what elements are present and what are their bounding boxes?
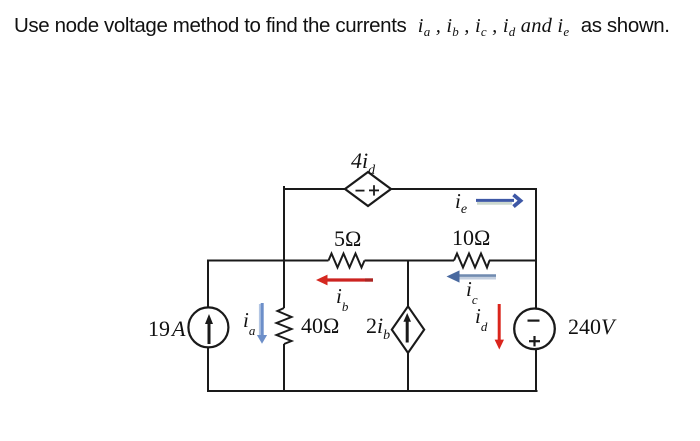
wire right vertical lower	[535, 349, 537, 392]
svg-text:19A: 19A	[148, 316, 186, 341]
wire 2ib branch upper	[407, 261, 409, 307]
title	[14, 16, 670, 37]
wire left vertical upper	[207, 260, 209, 307]
svg-text:5Ω: 5Ω	[334, 226, 361, 251]
minus sign inside 240V	[528, 320, 540, 322]
dependent current source 2ib diamond	[392, 306, 424, 353]
plus sign inside 240V	[529, 336, 540, 346]
wire 2ib branch lower	[407, 352, 409, 392]
current source 19A circle	[188, 307, 228, 347]
resistor 10ohm zigzag	[454, 254, 490, 268]
wire middle left segment	[207, 260, 329, 262]
current arrow ie (blue right)	[476, 195, 521, 207]
svg-text:2ib: 2ib	[366, 313, 390, 343]
svg-text:40Ω: 40Ω	[301, 313, 339, 338]
svg-text:ie: ie	[455, 189, 467, 217]
svg-text:10Ω: 10Ω	[452, 225, 490, 250]
wire below 40ohm	[283, 344, 285, 392]
voltage source 240V circle	[514, 309, 555, 350]
svg-text:ib: ib	[336, 284, 349, 314]
wire top-right segment	[391, 188, 536, 190]
resistor 40ohm zigzag	[277, 308, 292, 344]
svg-text:240V: 240V	[568, 314, 617, 339]
plus sign inside 4id diamond	[369, 185, 379, 195]
wire bottom	[207, 390, 538, 392]
current arrow ic (blue left)	[447, 270, 497, 282]
minus sign inside 4id diamond	[356, 190, 365, 192]
2ib source arrow	[403, 313, 411, 343]
wire middle right segment	[489, 260, 536, 262]
19A source arrow	[205, 314, 213, 344]
svg-text:id: id	[475, 304, 488, 334]
current arrow id (red down)	[495, 304, 504, 350]
wire middle center segment	[365, 260, 455, 262]
resistor 5ohm zigzag	[329, 254, 365, 268]
wire mid-left vertical	[283, 187, 285, 308]
current arrow ia (blue down)	[257, 303, 267, 344]
svg-text:ic: ic	[466, 277, 478, 307]
wire top-left segment	[284, 187, 345, 189]
current arrow ib (red left)	[316, 275, 373, 286]
wire right vertical upper	[535, 188, 537, 308]
dependent voltage source 4id diamond	[345, 172, 391, 206]
svg-text:ia: ia	[243, 308, 256, 338]
svg-text:4id: 4id	[351, 148, 376, 178]
wire left vertical lower	[207, 347, 209, 392]
